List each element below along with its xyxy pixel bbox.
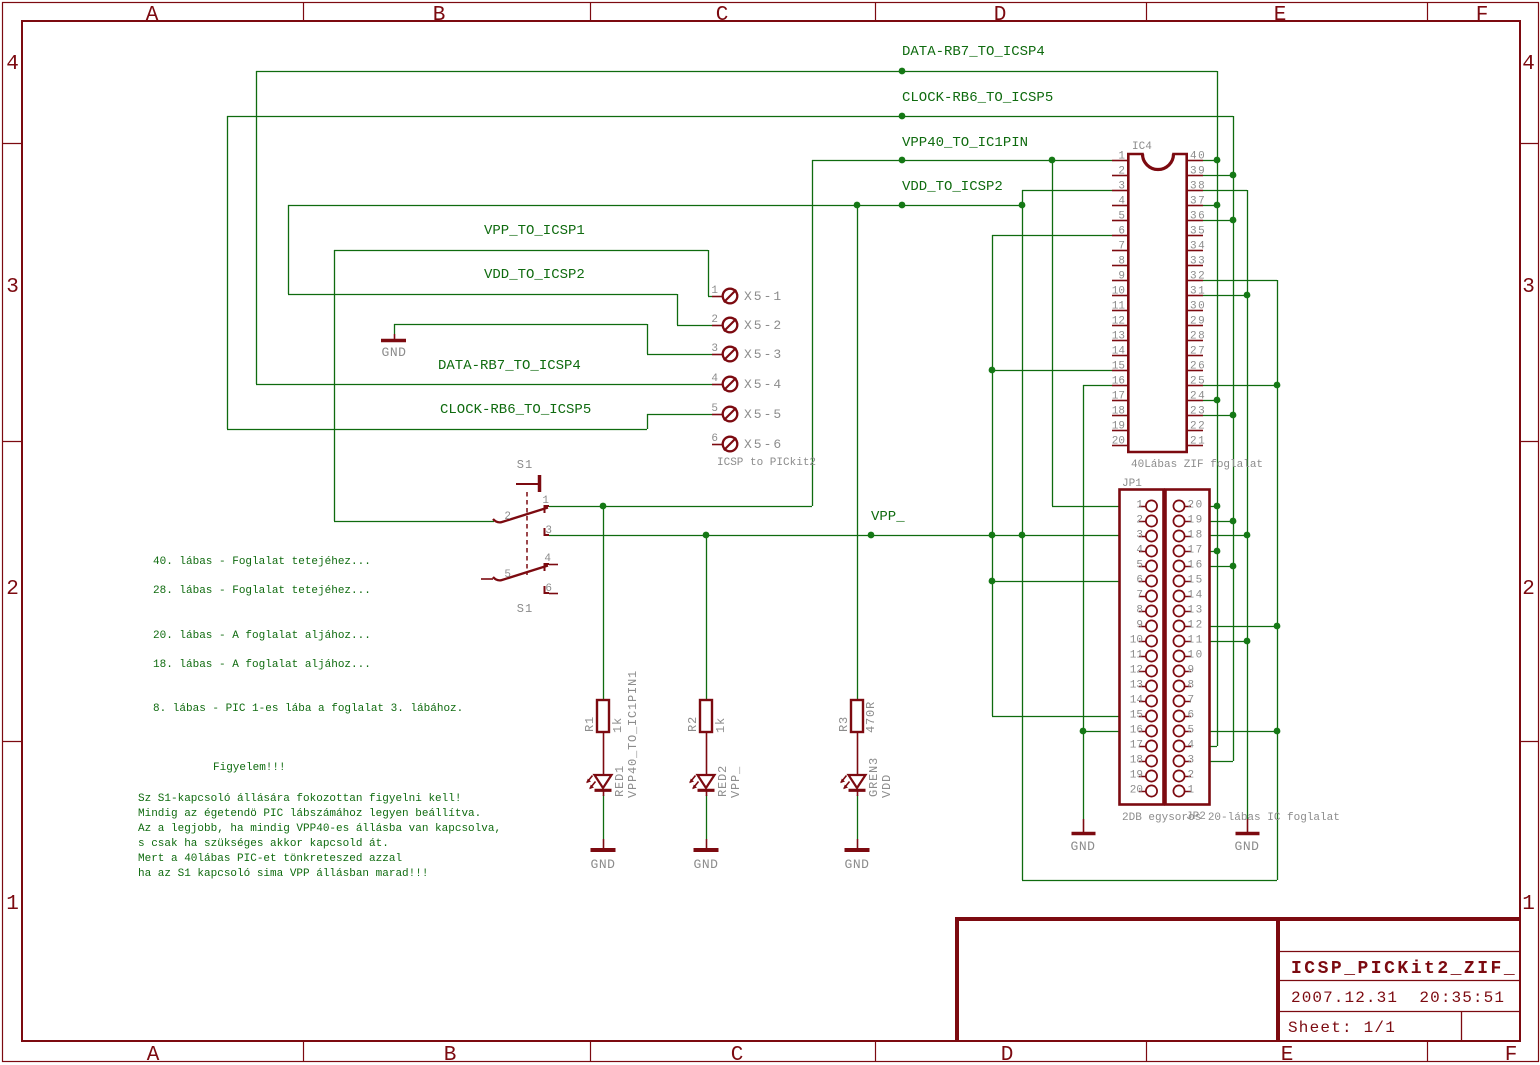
svg-text:2: 2 <box>504 511 511 523</box>
svg-text:F: F <box>1505 1044 1518 1065</box>
svg-text:12: 12 <box>1188 620 1204 632</box>
svg-text:15: 15 <box>1188 575 1204 587</box>
svg-text:15: 15 <box>1112 361 1125 373</box>
svg-text:3: 3 <box>1118 181 1125 193</box>
svg-text:16: 16 <box>1130 725 1143 737</box>
svg-text:14: 14 <box>1112 346 1126 358</box>
svg-text:ha az S1 kapcsoló sima VPP áll: ha az S1 kapcsoló sima VPP állásban mara… <box>138 868 428 880</box>
svg-text:X5-4: X5-4 <box>744 377 783 392</box>
svg-text:JP1: JP1 <box>1122 478 1142 490</box>
svg-text:16: 16 <box>1188 560 1204 572</box>
svg-text:39: 39 <box>1190 166 1206 178</box>
svg-text:1: 1 <box>711 285 718 297</box>
svg-text:32: 32 <box>1190 271 1206 283</box>
svg-text:12: 12 <box>1112 316 1125 328</box>
svg-text:GND: GND <box>694 857 719 872</box>
svg-text:8: 8 <box>1136 605 1143 617</box>
svg-text:8. lábas - PIC 1-es lába a fog: 8. lábas - PIC 1-es lába a foglalat 3. l… <box>153 703 463 715</box>
svg-text:40. lábas - Foglalat tetejéhez: 40. lábas - Foglalat tetejéhez... <box>153 556 371 568</box>
svg-text:8: 8 <box>1118 256 1125 268</box>
svg-text:Az a legjobb, ha mindig VPP40-: Az a legjobb, ha mindig VPP40-es állásba… <box>138 823 501 835</box>
svg-text:34: 34 <box>1190 241 1206 253</box>
svg-text:1: 1 <box>1188 785 1196 797</box>
svg-text:DATA-RB7_TO_ICSP4: DATA-RB7_TO_ICSP4 <box>902 44 1045 60</box>
svg-text:S1: S1 <box>517 458 533 472</box>
svg-text:2: 2 <box>1188 770 1196 782</box>
svg-text:E: E <box>1274 4 1287 27</box>
svg-text:24: 24 <box>1190 391 1206 403</box>
svg-text:4: 4 <box>6 53 19 76</box>
svg-text:X5-6: X5-6 <box>744 437 783 452</box>
svg-text:2DB egysoros 20-lábas IC fogla: 2DB egysoros 20-lábas IC foglalat <box>1122 812 1340 824</box>
svg-text:11: 11 <box>1112 301 1126 313</box>
svg-text:B: B <box>433 4 446 27</box>
svg-text:1k: 1k <box>714 717 728 733</box>
svg-text:C: C <box>731 1044 744 1065</box>
svg-text:2007.12.31 20:35:51: 2007.12.31 20:35:51 <box>1291 989 1505 1007</box>
svg-text:40Lábas ZIF foglalat: 40Lábas ZIF foglalat <box>1131 459 1263 471</box>
svg-text:GND: GND <box>382 345 407 360</box>
svg-text:VDD_TO_ICSP2: VDD_TO_ICSP2 <box>902 179 1003 195</box>
svg-text:X5-3: X5-3 <box>744 347 783 362</box>
svg-text:17: 17 <box>1188 545 1204 557</box>
svg-text:C: C <box>716 4 729 27</box>
svg-text:21: 21 <box>1190 436 1206 448</box>
svg-text:12: 12 <box>1130 665 1143 677</box>
svg-text:2: 2 <box>1136 515 1143 527</box>
svg-text:5: 5 <box>504 569 511 581</box>
svg-text:40: 40 <box>1190 151 1206 163</box>
svg-text:470R: 470R <box>864 701 878 733</box>
svg-text:26: 26 <box>1190 361 1206 373</box>
svg-text:F: F <box>1476 4 1489 27</box>
svg-text:X5-1: X5-1 <box>744 289 783 304</box>
svg-text:ICSP_PICKit2_ZIF_: ICSP_PICKit2_ZIF_ <box>1291 959 1517 979</box>
svg-text:VPP40_TO_IC1PIN: VPP40_TO_IC1PIN <box>902 135 1028 151</box>
svg-text:5: 5 <box>1118 211 1125 223</box>
svg-text:GND: GND <box>591 857 616 872</box>
svg-text:3: 3 <box>1522 276 1535 299</box>
svg-text:10: 10 <box>1188 650 1204 662</box>
svg-text:B: B <box>444 1044 457 1065</box>
svg-text:Mert a 40lábas PIC-et tönkrete: Mert a 40lábas PIC-et tönkreteszed azzal <box>138 853 402 865</box>
svg-text:18: 18 <box>1112 406 1125 418</box>
svg-text:1: 1 <box>1136 500 1143 512</box>
svg-text:RED2: RED2 <box>716 765 730 797</box>
svg-text:JP2: JP2 <box>1186 811 1206 823</box>
svg-text:X5-5: X5-5 <box>744 407 783 422</box>
svg-text:20: 20 <box>1112 436 1125 448</box>
svg-text:6: 6 <box>1118 226 1125 238</box>
svg-text:18. lábas - A foglalat aljához: 18. lábas - A foglalat aljához... <box>153 659 371 671</box>
svg-text:VDD: VDD <box>880 774 894 798</box>
svg-text:14: 14 <box>1130 695 1144 707</box>
svg-text:9: 9 <box>1118 271 1125 283</box>
svg-text:3: 3 <box>1188 755 1196 767</box>
svg-text:CLOCK-RB6_TO_ICSP5: CLOCK-RB6_TO_ICSP5 <box>902 90 1053 106</box>
svg-text:DATA-RB7_TO_ICSP4: DATA-RB7_TO_ICSP4 <box>438 358 581 374</box>
svg-text:9: 9 <box>1136 620 1143 632</box>
svg-text:6: 6 <box>1136 575 1143 587</box>
svg-text:4: 4 <box>1188 740 1196 752</box>
svg-text:2: 2 <box>6 578 19 601</box>
svg-text:GND: GND <box>845 857 870 872</box>
svg-text:6: 6 <box>1188 710 1196 722</box>
svg-text:13: 13 <box>1130 680 1143 692</box>
svg-text:3: 3 <box>1136 530 1143 542</box>
svg-text:38: 38 <box>1190 181 1206 193</box>
svg-text:Sheet: 1/1: Sheet: 1/1 <box>1288 1019 1396 1037</box>
svg-text:GREN3: GREN3 <box>867 757 881 797</box>
svg-text:10: 10 <box>1112 286 1125 298</box>
svg-text:8: 8 <box>1188 680 1196 692</box>
svg-text:11: 11 <box>1188 635 1204 647</box>
svg-text:10: 10 <box>1130 635 1143 647</box>
svg-text:3: 3 <box>6 276 19 299</box>
svg-text:1k: 1k <box>611 717 625 733</box>
svg-text:S1: S1 <box>517 602 533 616</box>
svg-text:20: 20 <box>1130 785 1143 797</box>
svg-text:VPP_TO_ICSP1: VPP_TO_ICSP1 <box>484 223 585 239</box>
svg-text:2: 2 <box>1522 578 1535 601</box>
svg-text:R2: R2 <box>686 716 700 732</box>
svg-text:VPP40_TO_IC1PIN1: VPP40_TO_IC1PIN1 <box>626 670 640 798</box>
svg-text:E: E <box>1281 1044 1294 1065</box>
svg-text:6: 6 <box>545 583 552 595</box>
svg-text:1: 1 <box>1522 893 1535 916</box>
svg-text:A: A <box>147 1044 160 1065</box>
svg-text:36: 36 <box>1190 211 1206 223</box>
svg-text:CLOCK-RB6_TO_ICSP5: CLOCK-RB6_TO_ICSP5 <box>440 402 591 418</box>
svg-text:Figyelem!!!: Figyelem!!! <box>213 762 286 774</box>
svg-text:5: 5 <box>1188 725 1196 737</box>
svg-text:s csak ha szükséges akkor kapc: s csak ha szükséges akkor kapcsold át. <box>138 838 389 850</box>
svg-text:20. lábas - A foglalat aljához: 20. lábas - A foglalat aljához... <box>153 630 371 642</box>
svg-text:14: 14 <box>1188 590 1204 602</box>
svg-text:X5-2: X5-2 <box>744 318 783 333</box>
svg-text:VPP_: VPP_ <box>871 509 905 525</box>
svg-text:30: 30 <box>1190 301 1206 313</box>
svg-text:16: 16 <box>1112 376 1125 388</box>
svg-text:3: 3 <box>711 343 718 355</box>
svg-text:A: A <box>146 4 159 27</box>
svg-text:2: 2 <box>1118 166 1125 178</box>
svg-text:1: 1 <box>542 495 549 507</box>
svg-text:23: 23 <box>1190 406 1206 418</box>
svg-text:27: 27 <box>1190 346 1206 358</box>
svg-text:37: 37 <box>1190 196 1206 208</box>
svg-text:35: 35 <box>1190 226 1206 238</box>
svg-text:4: 4 <box>1118 196 1125 208</box>
svg-text:13: 13 <box>1188 605 1204 617</box>
svg-text:VDD_TO_ICSP2: VDD_TO_ICSP2 <box>484 267 585 283</box>
svg-text:1: 1 <box>6 893 19 916</box>
svg-text:28. lábas - Foglalat tetejéhez: 28. lábas - Foglalat tetejéhez... <box>153 585 371 597</box>
svg-text:19: 19 <box>1130 770 1143 782</box>
svg-text:20: 20 <box>1188 500 1204 512</box>
svg-text:13: 13 <box>1112 331 1125 343</box>
svg-text:R1: R1 <box>583 716 597 732</box>
svg-text:4: 4 <box>1136 545 1143 557</box>
svg-text:17: 17 <box>1130 740 1143 752</box>
svg-text:6: 6 <box>711 433 718 445</box>
svg-text:VPP_: VPP_ <box>729 766 743 798</box>
svg-text:3: 3 <box>545 525 552 537</box>
svg-text:GND: GND <box>1071 839 1096 854</box>
svg-text:5: 5 <box>711 403 718 415</box>
svg-text:11: 11 <box>1130 650 1144 662</box>
svg-text:Mindig az égetendö PIC lábszám: Mindig az égetendö PIC lábszámához legye… <box>138 808 481 820</box>
svg-text:5: 5 <box>1136 560 1143 572</box>
svg-text:Sz S1-kapcsoló állására fokozo: Sz S1-kapcsoló állására fokozottan figye… <box>138 793 461 805</box>
svg-text:33: 33 <box>1190 256 1206 268</box>
svg-text:IC4: IC4 <box>1132 141 1152 153</box>
svg-text:9: 9 <box>1188 665 1196 677</box>
svg-text:7: 7 <box>1118 241 1125 253</box>
svg-text:RED1: RED1 <box>613 765 627 797</box>
svg-text:18: 18 <box>1188 530 1204 542</box>
svg-text:22: 22 <box>1190 421 1206 433</box>
svg-text:4: 4 <box>544 553 551 565</box>
svg-text:19: 19 <box>1188 515 1204 527</box>
svg-text:7: 7 <box>1188 695 1196 707</box>
svg-text:28: 28 <box>1190 331 1206 343</box>
svg-text:2: 2 <box>711 314 718 326</box>
svg-text:R3: R3 <box>837 716 851 732</box>
svg-text:D: D <box>994 4 1007 27</box>
svg-text:7: 7 <box>1136 590 1143 602</box>
svg-text:4: 4 <box>711 373 718 385</box>
svg-text:1: 1 <box>1118 151 1125 163</box>
svg-text:29: 29 <box>1190 316 1206 328</box>
svg-text:4: 4 <box>1522 53 1535 76</box>
svg-text:25: 25 <box>1190 376 1206 388</box>
svg-text:17: 17 <box>1112 391 1125 403</box>
svg-text:D: D <box>1001 1044 1014 1065</box>
svg-text:31: 31 <box>1190 286 1206 298</box>
svg-text:18: 18 <box>1130 755 1143 767</box>
svg-text:ICSP to PICkit2: ICSP to PICkit2 <box>717 457 816 469</box>
svg-text:19: 19 <box>1112 421 1125 433</box>
svg-text:GND: GND <box>1235 839 1260 854</box>
svg-text:15: 15 <box>1130 710 1143 722</box>
